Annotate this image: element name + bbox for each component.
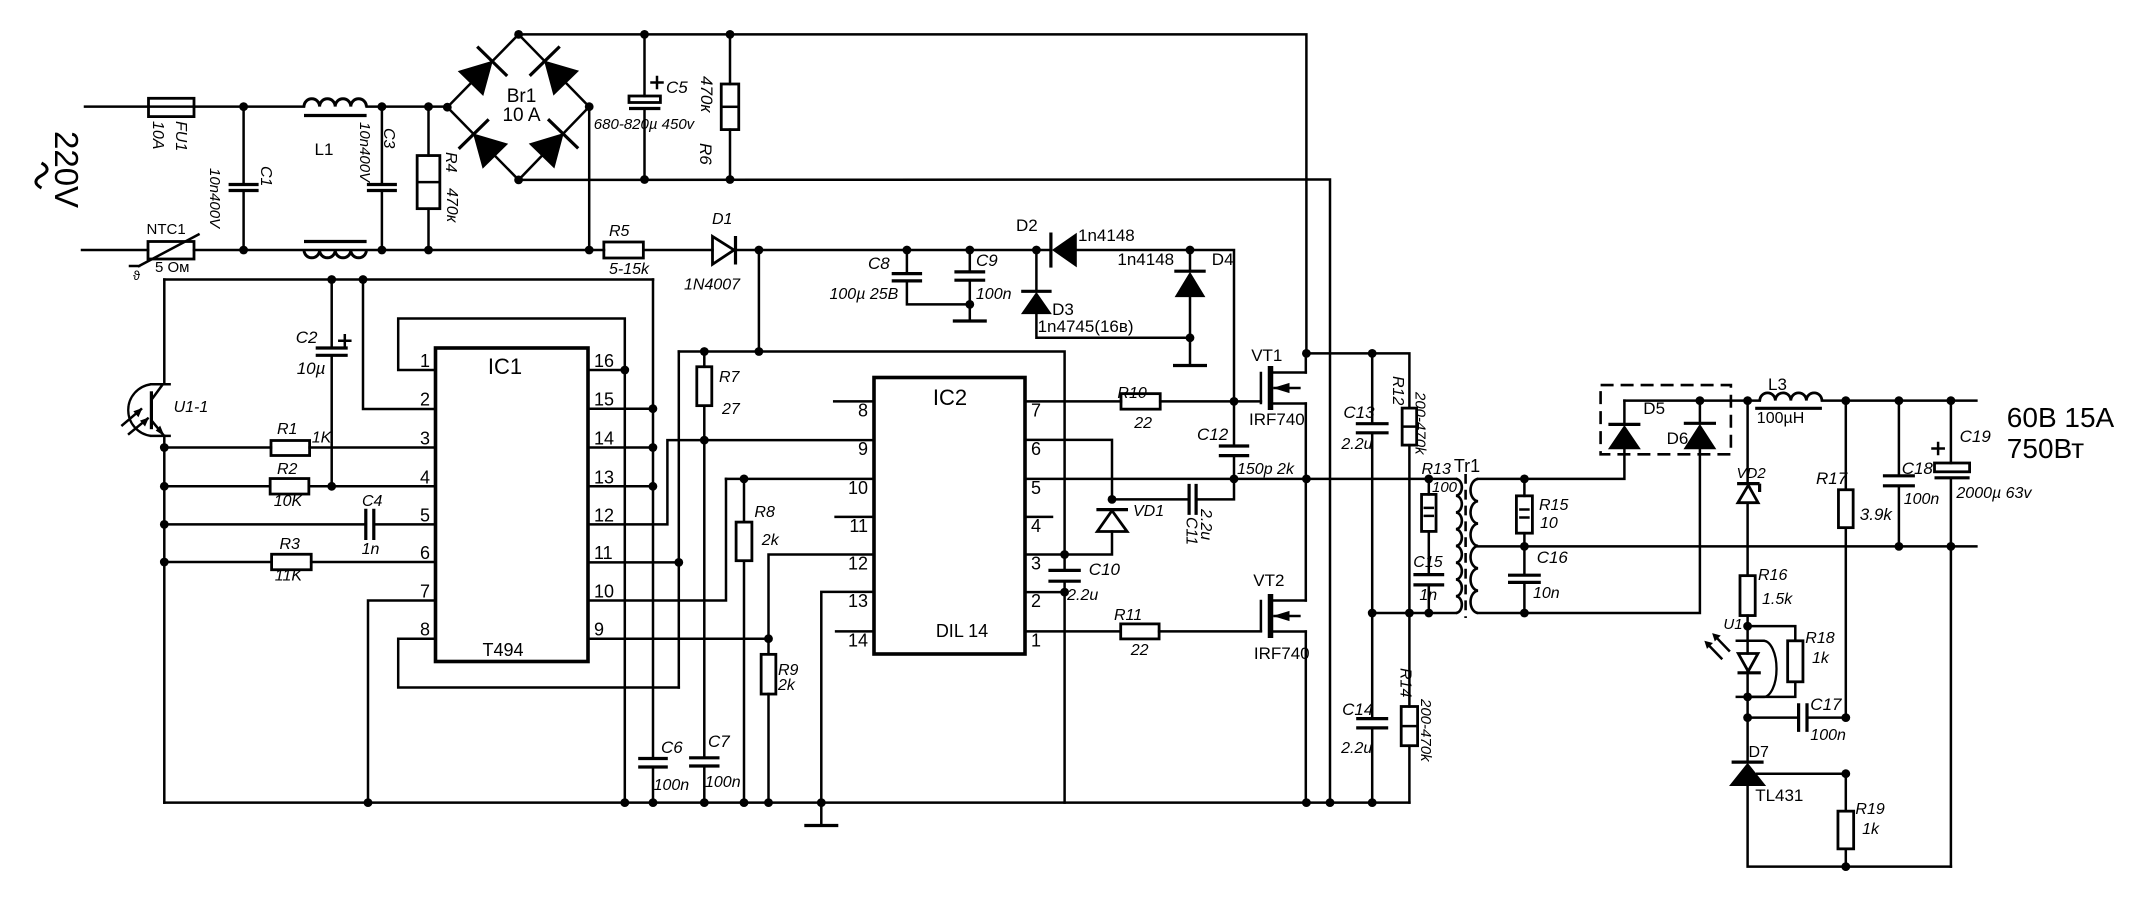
- node R15 top: [1520, 475, 1529, 484]
- node VT2 source rail: [1302, 798, 1311, 807]
- node C4 tap: [160, 520, 169, 529]
- svg-text:5: 5: [1031, 478, 1041, 498]
- svg-text:DIL 14: DIL 14: [936, 621, 988, 641]
- svg-text:100µ 25В: 100µ 25В: [830, 286, 899, 303]
- svg-text:C2: C2: [296, 328, 318, 347]
- svg-text:C15: C15: [1413, 554, 1442, 571]
- resistor R17: [1845, 401, 1848, 490]
- node C3 top: [378, 102, 387, 111]
- svg-text:100n: 100n: [1810, 727, 1846, 744]
- svg-text:2.2u: 2.2u: [1340, 740, 1372, 757]
- svg-text:1n: 1n: [1419, 587, 1437, 604]
- svg-text:R13: R13: [1422, 461, 1451, 478]
- node pin15 junction: [649, 404, 658, 413]
- node U1 anode: [1743, 622, 1752, 631]
- svg-text:VD2: VD2: [1737, 465, 1767, 482]
- node R12-R14 junction: [1405, 609, 1414, 618]
- node R6 top: [726, 30, 735, 39]
- capacitor C15: [1413, 575, 1444, 585]
- svg-text:C17: C17: [1810, 695, 1842, 714]
- svg-text:100n: 100n: [705, 774, 741, 791]
- resistor R12: [1402, 408, 1417, 445]
- svg-text:10A: 10A: [149, 121, 166, 149]
- zener D3: [1035, 250, 1038, 291]
- wire center tap line to output return: [1478, 545, 1976, 548]
- node bridge top vertex: [514, 30, 523, 39]
- svg-text:6: 6: [1031, 439, 1041, 459]
- resistor R10: [1121, 394, 1160, 410]
- svg-text:C6: C6: [661, 738, 683, 757]
- capacitor C12: [1233, 401, 1236, 446]
- IC chip IC2 DIL14 box: [874, 378, 1025, 655]
- svg-text:10n: 10n: [1533, 585, 1560, 602]
- svg-text:NTC1: NTC1: [147, 221, 186, 238]
- node R8 top: [740, 475, 749, 484]
- svg-text:100n: 100n: [976, 286, 1012, 303]
- node C1 bottom: [239, 246, 248, 255]
- svg-text:R10: R10: [1117, 385, 1146, 402]
- transformer Tr1 core: [1464, 474, 1467, 618]
- capacitor C16: [1508, 575, 1541, 582]
- svg-text:D6: D6: [1667, 429, 1689, 448]
- svg-text:10K: 10K: [274, 493, 304, 510]
- svg-text:C4: C4: [362, 493, 383, 510]
- wire collector supply line y279: [164, 278, 653, 281]
- wire secondary bottom line: [1478, 449, 1700, 613]
- svg-text:C3: C3: [380, 128, 397, 149]
- svg-text:150p 2k: 150p 2k: [1237, 461, 1295, 478]
- node rail C6: [649, 798, 658, 807]
- transistor VT2 IRF740: [1268, 594, 1274, 638]
- wire VT2 drain to midpoint: [1305, 479, 1308, 601]
- wire IC2 pin13 to ground: [821, 592, 874, 803]
- wire IC2 pin10 to R8: [726, 478, 874, 481]
- resistor R18 parallel LED: [1748, 626, 1796, 641]
- svg-text:100n: 100n: [1904, 491, 1940, 508]
- svg-text:8: 8: [858, 400, 868, 420]
- svg-text:R12: R12: [1389, 376, 1406, 405]
- svg-text:C11: C11: [1183, 517, 1200, 545]
- svg-text:C5: C5: [666, 78, 688, 97]
- svg-text:750Вт: 750Вт: [2007, 433, 2084, 464]
- wire VT2 source to rail: [1305, 632, 1308, 803]
- node C18 top: [1895, 396, 1904, 405]
- node C8-C9 junction: [965, 300, 974, 309]
- node D4 top: [1186, 246, 1195, 255]
- bridge diode top-left: [459, 61, 493, 95]
- node VD1 anode line junction: [1060, 550, 1069, 559]
- wire IC1 pin2 riser: [363, 280, 436, 410]
- node R6 bottom: [726, 175, 735, 184]
- node C5 top: [640, 30, 649, 39]
- node D3-D4 junction: [1186, 333, 1195, 342]
- node pin2 riser top: [359, 275, 368, 284]
- node C19 bottom: [1947, 542, 1956, 551]
- resistor R2: [164, 485, 270, 488]
- svg-text:680-820µ 450v: 680-820µ 450v: [594, 116, 696, 133]
- svg-text:R2: R2: [277, 461, 298, 478]
- svg-text:FU1: FU1: [172, 121, 189, 151]
- node C18 bottom: [1895, 542, 1904, 551]
- wire IC2 pin8 stub: [834, 400, 874, 403]
- svg-text:C9: C9: [976, 251, 998, 270]
- svg-text:4: 4: [420, 467, 430, 487]
- wire IC1 pin11 stub: [588, 561, 679, 564]
- node VD1 top: [1108, 495, 1117, 504]
- svg-text:16: 16: [594, 351, 614, 371]
- node rail R9: [764, 798, 773, 807]
- node R4 top: [424, 102, 433, 111]
- capacitor C8: [906, 250, 909, 274]
- node bridge bottom vertex: [514, 176, 523, 185]
- svg-text:1n: 1n: [362, 541, 380, 558]
- wire control supply line y351: [679, 352, 1065, 555]
- capacitor C3: [381, 107, 384, 185]
- wire D7 reference to divider: [1757, 772, 1846, 775]
- wire snubber mid line y613: [1372, 612, 1456, 615]
- capacitor C14: [1371, 613, 1374, 719]
- node VT1 drain junction: [1302, 349, 1311, 358]
- svg-text:R6: R6: [696, 143, 715, 165]
- svg-text:14: 14: [594, 429, 614, 449]
- svg-text:7: 7: [1031, 400, 1041, 420]
- svg-text:ϑ: ϑ: [133, 268, 141, 283]
- node VD2 bus junction: [1743, 396, 1752, 405]
- svg-text:C19: C19: [1960, 427, 1992, 446]
- svg-text:2.2u: 2.2u: [1340, 436, 1372, 453]
- resistor R1: [164, 446, 271, 449]
- svg-text:R7: R7: [719, 369, 741, 386]
- wire IC2 pin6 to VD1: [1025, 440, 1112, 500]
- svg-text:10n400V: 10n400V: [206, 168, 223, 230]
- IC chip IC1 T494 box: [436, 348, 589, 662]
- bottom ground rail: [164, 801, 1409, 804]
- resistor R14: [1408, 613, 1411, 707]
- node C12 bottom on mid line: [1230, 475, 1239, 484]
- svg-text:12: 12: [594, 505, 614, 525]
- svg-text:2000µ 63v: 2000µ 63v: [1955, 485, 2032, 502]
- diode VD1: [1096, 508, 1128, 511]
- svg-text:VT1: VT1: [1251, 346, 1282, 365]
- svg-text:L3: L3: [1768, 375, 1787, 394]
- resistor R5: [604, 242, 644, 258]
- node R9 top: [764, 634, 773, 643]
- svg-text:10n400V: 10n400V: [356, 122, 373, 184]
- inductor L3: [1760, 393, 1822, 401]
- svg-text:11K: 11K: [275, 568, 304, 585]
- wire IC2 pin1 to R11: [1025, 630, 1121, 633]
- ground symbol on rail: [820, 803, 823, 826]
- svg-text:C14: C14: [1342, 700, 1373, 719]
- svg-text:10µ: 10µ: [297, 359, 326, 378]
- svg-text:D1: D1: [712, 211, 732, 228]
- wire IC2 pin4 stub: [1025, 516, 1052, 519]
- svg-text:3: 3: [1031, 554, 1041, 574]
- capacitor C18: [1898, 401, 1901, 476]
- wire IC1 pin8 loop to D1 node riser: [398, 639, 679, 688]
- svg-text:4: 4: [1031, 516, 1041, 536]
- fuse FU1: [149, 98, 195, 116]
- svg-text:R15: R15: [1539, 497, 1568, 514]
- svg-text:200-470k: 200-470k: [1417, 698, 1434, 763]
- node R3 tap: [160, 558, 169, 567]
- svg-text:R14: R14: [1397, 668, 1414, 697]
- svg-text:5-15k: 5-15k: [609, 261, 650, 278]
- svg-text:6: 6: [420, 543, 430, 563]
- node rail R8: [740, 798, 749, 807]
- wire R5 to D1: [643, 249, 712, 252]
- svg-text:200-470k: 200-470k: [1412, 391, 1429, 456]
- node C13-C14 junction: [1368, 609, 1377, 618]
- wire IC2 pin7 to R10: [1025, 400, 1121, 403]
- svg-text:R4: R4: [442, 152, 459, 173]
- wire rectifier output bus: [1624, 399, 1759, 402]
- node C2 bottom on pin4 line: [327, 482, 336, 491]
- wire IC1 pin12 to R7 node: [588, 440, 704, 524]
- svg-text:T494: T494: [482, 640, 523, 660]
- node rail pin7: [364, 798, 373, 807]
- svg-text:U1-1: U1-1: [174, 399, 209, 416]
- transistor VT1 IRF740: [1268, 366, 1274, 410]
- node C16 bottom: [1520, 609, 1529, 618]
- svg-text:IRF740: IRF740: [1249, 410, 1305, 429]
- svg-text:13: 13: [848, 591, 868, 611]
- wire feedback return riser: [1950, 546, 1953, 866]
- wire VT1 drain: [1305, 353, 1308, 372]
- svg-text:IRF740: IRF740: [1254, 644, 1310, 663]
- capacitor C2 electrolytic: [330, 280, 333, 349]
- shunt regulator D7 TL431: [1746, 718, 1749, 763]
- node D1 riser junction y351: [755, 347, 764, 356]
- node R4 bottom: [424, 246, 433, 255]
- svg-text:15: 15: [594, 390, 614, 410]
- svg-text:C7: C7: [708, 732, 730, 751]
- svg-text:1N4007: 1N4007: [684, 277, 741, 294]
- svg-text:R11: R11: [1114, 607, 1142, 624]
- wire R10 to VT1 gate: [1160, 400, 1261, 403]
- node R15-C16 center tap junction: [1520, 542, 1529, 551]
- svg-text:10: 10: [594, 582, 614, 602]
- wire IC1 pin9 to R9: [588, 637, 769, 640]
- resistor R19: [1845, 774, 1848, 812]
- svg-text:12: 12: [848, 554, 868, 574]
- svg-text:1: 1: [1031, 630, 1041, 650]
- svg-text:C16: C16: [1537, 548, 1569, 567]
- diode D2: [1049, 233, 1052, 268]
- resistor R9: [767, 639, 770, 655]
- wire D2 to gate-line corner: [1076, 250, 1234, 401]
- svg-text:9: 9: [858, 439, 868, 459]
- svg-text:1: 1: [420, 351, 430, 371]
- svg-text:IC2: IC2: [933, 385, 967, 410]
- svg-text:1n4148: 1n4148: [1117, 250, 1174, 269]
- diode D1: [713, 236, 735, 264]
- resistor R11: [1121, 624, 1159, 639]
- inductor L1 bottom winding: [304, 250, 366, 258]
- wire bottom mains left: [82, 249, 148, 252]
- wire DC- rail: [519, 180, 1330, 803]
- wire IC1 pin13 stub: [588, 485, 653, 488]
- node C2 top: [327, 275, 336, 284]
- node rail x625: [620, 798, 629, 807]
- node bridge right vertex: [585, 102, 594, 111]
- svg-text:220V: 220V: [48, 131, 85, 208]
- node C3 bottom: [378, 246, 387, 255]
- wire IC2 pin9 to R7 node: [704, 439, 874, 442]
- svg-text:C8: C8: [868, 254, 890, 273]
- svg-text:1K: 1K: [312, 430, 333, 447]
- node pin14 junction: [649, 443, 658, 452]
- svg-text:7: 7: [420, 582, 430, 602]
- svg-text:9: 9: [594, 620, 604, 640]
- wire D1 to D2: [736, 249, 1051, 252]
- wire secondary top to D5: [1478, 449, 1624, 479]
- wire C11 line: [1112, 498, 1189, 501]
- svg-text:R1: R1: [277, 421, 297, 438]
- ground below D4: [1173, 364, 1207, 367]
- svg-text:R18: R18: [1805, 630, 1834, 647]
- bridge diode bottom-left: [474, 134, 508, 168]
- svg-text:8: 8: [420, 620, 430, 640]
- resistor R15: [1523, 479, 1526, 496]
- node C1 top: [239, 102, 248, 111]
- svg-text:3.9k: 3.9k: [1860, 505, 1894, 524]
- svg-text:2: 2: [1031, 591, 1041, 611]
- node C14 rail: [1368, 798, 1377, 807]
- node bridge left vertex: [443, 103, 452, 112]
- wire top rail DC+: [519, 34, 1307, 353]
- svg-text:VD1: VD1: [1133, 503, 1164, 520]
- svg-text:L1: L1: [315, 140, 334, 159]
- node C17 right on R17 column: [1841, 713, 1850, 722]
- resistor R7: [703, 352, 706, 367]
- bridge diode bottom-right: [530, 134, 563, 168]
- svg-text:R5: R5: [609, 223, 630, 240]
- node R17 top: [1841, 396, 1850, 405]
- svg-text:10 A: 10 A: [502, 105, 540, 126]
- optocoupler transistor U1-1: [163, 280, 166, 385]
- diode D6: [1684, 422, 1716, 425]
- svg-text:R8: R8: [754, 504, 775, 521]
- wire R11 to VT2 gate: [1159, 630, 1261, 633]
- wire IC1 pin1 to pin16 loop: [398, 319, 625, 803]
- svg-text:60В 15А: 60В 15А: [2007, 402, 2115, 433]
- diode D4: [1189, 250, 1192, 271]
- node D6 cathode: [1696, 396, 1705, 405]
- svg-text:11: 11: [594, 543, 613, 563]
- svg-text:R19: R19: [1855, 801, 1884, 818]
- resistor R13: [1428, 479, 1431, 495]
- svg-text:IC1: IC1: [488, 354, 522, 379]
- bridge rectifier Br1 frame: [447, 34, 589, 180]
- node C13 top: [1368, 349, 1377, 358]
- svg-text:100: 100: [1432, 479, 1458, 496]
- svg-text:11: 11: [849, 516, 868, 536]
- svg-text:10: 10: [1540, 515, 1558, 532]
- capacitor C19 electrolytic: [1950, 401, 1953, 463]
- svg-text:Tr1: Tr1: [1454, 456, 1480, 476]
- node R19 bottom: [1841, 862, 1850, 871]
- node pin13 junction: [649, 482, 658, 491]
- rectifier dashed box D5 D6: [1601, 385, 1731, 454]
- node divider junction: [1841, 769, 1850, 778]
- wire IC1 pin7 to ground rail: [368, 601, 436, 803]
- svg-text:27: 27: [721, 401, 741, 418]
- svg-text:470к: 470к: [443, 188, 460, 224]
- svg-text:D2: D2: [1016, 216, 1038, 235]
- transformer Tr1 secondary winding: [1471, 479, 1478, 613]
- node LED cathode: [1743, 693, 1752, 702]
- bridge diode top-right: [545, 61, 578, 94]
- node R7 bottom 4-way: [700, 436, 709, 445]
- svg-text:C12: C12: [1197, 425, 1229, 444]
- svg-text:5 Ом: 5 Ом: [155, 259, 190, 276]
- svg-text:13: 13: [594, 467, 614, 487]
- node C15 bottom: [1424, 609, 1433, 618]
- node C9 top: [965, 246, 974, 255]
- source AC tilde symbol: [36, 163, 47, 188]
- wire IC2 pin14 stub: [836, 630, 874, 633]
- wire IC2 pin11 stub: [836, 516, 874, 519]
- zener VD2: [1746, 401, 1749, 484]
- node C17 left: [1743, 713, 1752, 722]
- resistor R3: [164, 561, 271, 564]
- svg-text:10: 10: [848, 478, 868, 498]
- node pin16 junction: [620, 366, 629, 375]
- resistor R16: [1740, 576, 1755, 616]
- svg-text:1n4745(16в): 1n4745(16в): [1038, 317, 1134, 336]
- node D3 top: [1032, 246, 1041, 255]
- capacitor C11: [1189, 484, 1196, 515]
- wire bridge AC2 down: [588, 107, 591, 250]
- ground below C9: [953, 319, 987, 322]
- svg-text:Br1: Br1: [507, 86, 537, 107]
- svg-text:D7: D7: [1749, 744, 1770, 761]
- svg-text:3: 3: [420, 429, 430, 449]
- svg-text:C10: C10: [1089, 560, 1121, 579]
- wire IC2 pin12 to R9 node: [769, 555, 875, 639]
- svg-text:1k: 1k: [1812, 650, 1830, 667]
- node R2 tap: [160, 482, 169, 491]
- capacitor C10: [1063, 555, 1066, 571]
- svg-text:5: 5: [420, 505, 430, 525]
- svg-text:C13: C13: [1343, 403, 1375, 422]
- svg-text:1.5k: 1.5k: [1762, 591, 1793, 608]
- node D1 cathode junction: [755, 246, 764, 255]
- diode D5: [1608, 423, 1640, 426]
- wire IC2 pin5 midpoint line: [1025, 478, 1456, 481]
- svg-text:470к: 470к: [697, 76, 716, 113]
- wire top mains to bridge: [194, 105, 304, 108]
- svg-text:R16: R16: [1758, 567, 1787, 584]
- resistor R8: [743, 479, 746, 522]
- node R13 top: [1424, 475, 1433, 484]
- svg-text:100µH: 100µH: [1757, 410, 1804, 427]
- node C5 bottom: [640, 175, 649, 184]
- resistor R6: [729, 34, 732, 84]
- svg-text:R3: R3: [280, 536, 301, 553]
- node gate line D2 junction: [1230, 397, 1239, 406]
- node rail ground symbol: [817, 798, 826, 807]
- svg-text:2: 2: [420, 390, 430, 410]
- node rail C7: [700, 798, 709, 807]
- capacitor C7: [689, 758, 719, 766]
- svg-text:22: 22: [1133, 415, 1152, 432]
- svg-text:D4: D4: [1212, 250, 1234, 269]
- wire IC2 pin2 stub: [1025, 591, 1065, 594]
- wire L3 to output plus: [1822, 399, 1977, 402]
- wire top mains left: [85, 105, 149, 108]
